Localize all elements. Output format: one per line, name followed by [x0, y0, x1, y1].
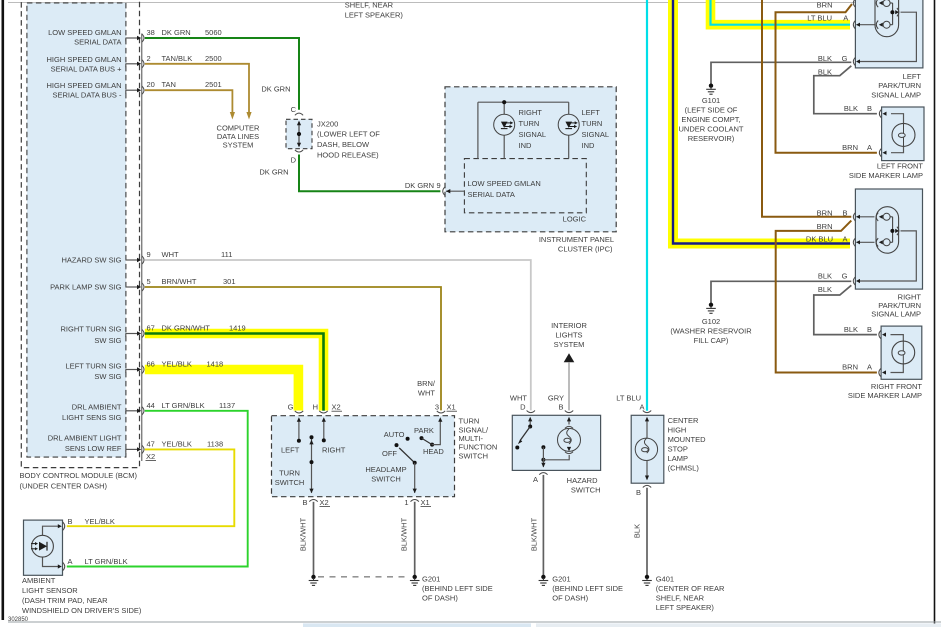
svg-text:TURN: TURN	[459, 417, 480, 426]
svg-text:(LOWER LEFT OF: (LOWER LEFT OF	[317, 130, 380, 139]
svg-text:B: B	[68, 517, 73, 526]
svg-text:X1: X1	[447, 403, 456, 412]
svg-text:BRN/: BRN/	[417, 379, 436, 388]
svg-text:SIGNAL: SIGNAL	[582, 130, 610, 139]
svg-text:PARK/TURN: PARK/TURN	[878, 81, 921, 90]
terminal arcs right marker	[879, 330, 881, 338]
svg-text:IND: IND	[582, 141, 596, 150]
svg-text:HIGH: HIGH	[668, 426, 687, 435]
filament row A right lamp	[857, 241, 875, 243]
svg-text:SWITCH: SWITCH	[459, 451, 489, 460]
svg-text:DK GRN: DK GRN	[162, 28, 191, 37]
terminal arc B bottom	[309, 500, 317, 502]
lamp LEFT PARK/TURN box	[855, 0, 923, 68]
svg-text:9: 9	[147, 250, 151, 259]
svg-text:LIGHT SENS SIG: LIGHT SENS SIG	[62, 413, 122, 422]
wire PARK to HEAD segment	[422, 438, 433, 445]
wire highlight DK BLU to right lamp A	[673, 0, 850, 244]
svg-text:(WASHER RESERVOIR: (WASHER RESERVOIR	[670, 327, 752, 336]
wire dashed ground link	[318, 576, 410, 578]
svg-text:HAZARD: HAZARD	[567, 476, 598, 485]
svg-text:OFF: OFF	[382, 449, 397, 458]
svg-text:RIGHT: RIGHT	[322, 445, 346, 454]
svg-text:TURN: TURN	[582, 119, 603, 128]
svg-text:1: 1	[404, 498, 408, 507]
svg-text:LEFT TURN SIG: LEFT TURN SIG	[66, 362, 122, 371]
svg-text:BLK: BLK	[818, 68, 832, 77]
svg-text:(BEHIND LEFT SIDE: (BEHIND LEFT SIDE	[422, 584, 493, 593]
bottom page border line	[8, 621, 941, 623]
svg-text:INSTRUMENT PANEL: INSTRUMENT PANEL	[539, 235, 614, 244]
svg-text:9: 9	[437, 181, 441, 190]
svg-text:BLK: BLK	[818, 285, 832, 294]
terminal arc H	[319, 411, 327, 413]
junction dot IPC bus	[502, 100, 506, 104]
right page border	[934, 0, 936, 627]
svg-text:B: B	[636, 488, 641, 497]
terminal arcs right lamp	[853, 213, 855, 221]
svg-text:301: 301	[223, 277, 236, 286]
filament row B right lamp	[857, 216, 875, 218]
lamp hazard illumination	[568, 419, 570, 425]
svg-text:SWITCH: SWITCH	[275, 478, 305, 487]
wire IPC internal bus	[478, 102, 569, 158]
svg-text:DK GRN: DK GRN	[259, 168, 288, 177]
svg-text:FILL CAP): FILL CAP)	[694, 336, 729, 345]
bulb stadium right lamp	[876, 207, 899, 254]
svg-text:CLUSTER (IPC): CLUSTER (IPC)	[558, 245, 613, 254]
svg-text:HAZARD SW SIG: HAZARD SW SIG	[61, 256, 121, 265]
BCM body control module outer box	[21, 0, 139, 468]
svg-text:SIGNAL LAMP: SIGNAL LAMP	[871, 310, 921, 319]
svg-text:38: 38	[147, 28, 155, 37]
svg-text:BLK: BLK	[633, 524, 642, 538]
indicator LED right turn signal ind	[494, 114, 515, 135]
terminal arc 1 bottom	[411, 500, 419, 502]
svg-text:47: 47	[147, 439, 155, 448]
svg-text:SIDE MARKER LAMP: SIDE MARKER LAMP	[848, 391, 922, 400]
terminal arc C	[295, 113, 303, 115]
svg-text:B: B	[302, 498, 307, 507]
svg-text:SENS LOW REF: SENS LOW REF	[65, 444, 122, 453]
svg-text:66: 66	[147, 360, 155, 369]
svg-text:BRN/WHT: BRN/WHT	[162, 277, 197, 286]
wire LT GRN/BLK 1137 from BCM 44 to ambient sensor A	[67, 411, 248, 567]
lamp CHMSL box	[631, 415, 664, 483]
svg-text:LEFT SPEAKER): LEFT SPEAKER)	[345, 11, 404, 20]
svg-text:SYSTEM: SYSTEM	[554, 340, 585, 349]
svg-text:2501: 2501	[205, 80, 222, 89]
svg-text:20: 20	[147, 80, 155, 89]
svg-text:G201: G201	[422, 574, 440, 583]
svg-text:LIGHTS: LIGHTS	[555, 330, 582, 339]
svg-text:DK BLU: DK BLU	[806, 234, 833, 243]
filament row B left lamp	[876, 0, 878, 7]
svg-text:LOW SPEED GMLAN: LOW SPEED GMLAN	[48, 28, 121, 37]
svg-text:G: G	[288, 403, 294, 412]
svg-text:SIGNAL/: SIGNAL/	[459, 425, 490, 434]
svg-text:1138: 1138	[207, 439, 223, 448]
svg-text:DK GRN: DK GRN	[261, 85, 290, 94]
wire LT BLU core to left lamp A	[711, 0, 851, 25]
svg-text:LEFT: LEFT	[903, 72, 922, 81]
terminal arc A hazard bottom	[539, 473, 547, 475]
wire BRN left lamp B branch to left marker A	[776, 4, 877, 153]
filament row A left lamp	[857, 24, 875, 26]
svg-text:BLK: BLK	[818, 272, 832, 281]
wire BRN feed to right lamp B	[762, 0, 851, 217]
svg-text:BRN: BRN	[817, 222, 833, 231]
svg-text:SWITCH: SWITCH	[571, 485, 601, 494]
svg-text:JX200: JX200	[317, 119, 338, 128]
svg-text:B: B	[867, 325, 872, 334]
photodiode ambient sensor	[32, 535, 54, 557]
junction dot JX200	[297, 132, 301, 136]
switch headlamp lever	[399, 448, 415, 463]
svg-text:ENGINE COMPT,: ENGINE COMPT,	[681, 115, 740, 124]
ground G201 at dash	[410, 575, 420, 586]
svg-text:D: D	[520, 403, 526, 412]
svg-text:YEL/BLK: YEL/BLK	[85, 517, 115, 526]
indicator LED left turn signal ind	[558, 114, 579, 135]
wire DK GRN/WHT 1419 from BCM 67 to switch H	[145, 334, 324, 411]
switch headlamp contacts AUTO OFF PARK HEAD	[406, 437, 410, 441]
svg-text:SW SIG: SW SIG	[94, 336, 121, 345]
svg-text:3: 3	[435, 403, 439, 412]
svg-text:BLK: BLK	[844, 325, 858, 334]
switch turn signal / multifunction switch box	[272, 416, 455, 497]
wire TAN/BLK 2500 from BCM 2 to computer data lines	[145, 64, 249, 113]
ground G101	[706, 84, 716, 95]
lamp LEFT FRONT SIDE MARKER box	[882, 107, 924, 161]
svg-text:CENTER: CENTER	[668, 416, 699, 425]
ground G401	[642, 575, 652, 586]
svg-text:INTERIOR: INTERIOR	[551, 321, 587, 330]
svg-text:HIGH SPEED GMLAN: HIGH SPEED GMLAN	[46, 81, 121, 90]
wire BLK/WHT from switch B to G201	[313, 502, 315, 575]
terminal arc IPC pin 9	[443, 187, 445, 195]
svg-text:X2: X2	[332, 403, 341, 412]
terminal arc B chmsl bottom	[643, 485, 651, 487]
svg-text:2500: 2500	[205, 54, 222, 63]
wire left lamp internal to pin G	[860, 12, 916, 61]
terminal arc G	[295, 411, 303, 413]
svg-text:FUNCTION: FUNCTION	[459, 443, 498, 452]
svg-text:YEL/BLK: YEL/BLK	[162, 360, 192, 369]
svg-text:B: B	[558, 403, 563, 412]
bulb stadium left lamp	[875, 0, 899, 37]
svg-text:LT GRN/BLK: LT GRN/BLK	[162, 401, 205, 410]
terminal arc B	[565, 411, 573, 413]
svg-text:H: H	[313, 403, 318, 412]
svg-text:UNDER COOLANT: UNDER COOLANT	[678, 125, 743, 134]
svg-text:TAN/BLK: TAN/BLK	[162, 54, 193, 63]
wire BLK G102 to right lamp G	[711, 281, 851, 303]
svg-text:WINDSHIELD ON DRIVER'S SIDE): WINDSHIELD ON DRIVER'S SIDE)	[22, 606, 142, 615]
svg-text:BLK/WHT: BLK/WHT	[299, 517, 308, 551]
svg-text:HOOD RELEASE): HOOD RELEASE)	[317, 151, 379, 160]
svg-text:BRN: BRN	[842, 363, 858, 372]
svg-text:WHT: WHT	[162, 250, 179, 259]
svg-text:MULTI-: MULTI-	[459, 434, 484, 443]
svg-text:G201: G201	[552, 574, 570, 583]
svg-text:HIGH SPEED GMLAN: HIGH SPEED GMLAN	[46, 55, 121, 64]
JX200 internal joint wire	[298, 122, 300, 146]
svg-text:A: A	[639, 403, 644, 412]
svg-text:BODY CONTROL MODULE (BCM): BODY CONTROL MODULE (BCM)	[20, 471, 138, 480]
wire LT BLU to CHMSL A	[646, 0, 648, 411]
svg-text:G101: G101	[702, 96, 720, 105]
svg-text:5060: 5060	[205, 28, 222, 37]
svg-text:44: 44	[147, 401, 155, 410]
wire BLK G101 to left lamp G	[711, 62, 851, 84]
wire GRY from hazard B to interior lights	[568, 362, 570, 410]
svg-text:LAMP: LAMP	[668, 454, 688, 463]
wire DK GRN 5060 from BCM 38 to JX200 C	[145, 38, 299, 110]
svg-text:LOGIC: LOGIC	[563, 214, 587, 223]
terminal arc A chmsl	[643, 411, 651, 413]
IPC logic inner box	[464, 159, 586, 213]
svg-text:OF DASH): OF DASH)	[552, 593, 588, 602]
svg-text:2: 2	[147, 54, 151, 63]
lamp RIGHT PARK/TURN box	[855, 189, 922, 289]
svg-text:WHT: WHT	[510, 393, 527, 402]
BCM pin 38 arrow and terminal arc	[126, 38, 138, 449]
switch turn switch pole	[311, 437, 313, 493]
svg-text:C: C	[291, 105, 297, 114]
svg-text:G401: G401	[656, 574, 674, 583]
wire BRN right lamp B branch to right marker A	[776, 221, 877, 373]
terminal arcs left marker	[879, 110, 881, 118]
svg-text:1137: 1137	[219, 401, 235, 410]
svg-text:A: A	[842, 234, 847, 243]
svg-text:5: 5	[147, 277, 151, 286]
svg-text:DK GRN: DK GRN	[405, 181, 434, 190]
switch hazard common pole	[541, 445, 545, 449]
svg-text:(UNDER CENTER DASH): (UNDER CENTER DASH)	[20, 482, 108, 491]
svg-text:MOUNTED: MOUNTED	[668, 435, 706, 444]
svg-text:SHELF, NEAR: SHELF, NEAR	[656, 593, 705, 602]
wire highlight for DK GRN/WHT 1419	[145, 334, 324, 411]
svg-text:BRN: BRN	[842, 143, 858, 152]
wire top page separator line	[8, 2, 855, 4]
svg-text:X2: X2	[146, 452, 155, 461]
svg-text:LEFT: LEFT	[582, 108, 601, 117]
BCM inner dashed box	[27, 3, 126, 457]
connector JX200 box	[286, 119, 312, 148]
svg-text:SERIAL DATA: SERIAL DATA	[468, 190, 515, 199]
svg-text:(CENTER OF REAR: (CENTER OF REAR	[656, 584, 725, 593]
svg-text:IND: IND	[519, 141, 533, 150]
switch hazard toggle	[529, 419, 531, 427]
marker bulb left	[891, 114, 904, 153]
svg-text:DRL AMBIENT: DRL AMBIENT	[72, 402, 122, 411]
svg-text:PARK LAMP SW SIG: PARK LAMP SW SIG	[50, 283, 122, 292]
terminal arc D	[295, 150, 303, 152]
wire BLK/WHT from switch 1 to G201	[414, 502, 416, 575]
svg-text:PARK: PARK	[414, 426, 434, 435]
svg-text:BLK/WHT: BLK/WHT	[529, 517, 538, 551]
wire DK GRN from JX200 D to IPC pin 9	[299, 155, 440, 192]
switch turn switch right contact	[323, 419, 325, 440]
wire pin 9 to logic box	[446, 190, 464, 192]
svg-text:BLK: BLK	[844, 104, 858, 113]
svg-text:DK GRN/WHT: DK GRN/WHT	[162, 324, 211, 333]
wire right lamp internal to pin G	[860, 231, 916, 281]
svg-text:SW SIG: SW SIG	[94, 372, 121, 381]
wire WHT 111 from BCM 9 to hazard switch D	[145, 260, 531, 410]
svg-text:STOP: STOP	[668, 445, 688, 454]
svg-text:1418: 1418	[207, 360, 224, 369]
switch turn switch left contact	[298, 419, 300, 441]
svg-text:AMBIENT: AMBIENT	[22, 576, 56, 585]
ground G201 behind dash second	[539, 575, 549, 586]
svg-text:BLK/WHT: BLK/WHT	[400, 517, 409, 551]
svg-text:YEL/BLK: YEL/BLK	[162, 439, 192, 448]
svg-text:BLK: BLK	[818, 54, 832, 63]
svg-text:A: A	[68, 557, 73, 566]
svg-text:B: B	[867, 104, 872, 113]
ground symbol at switch B	[309, 575, 319, 586]
svg-text:LEFT: LEFT	[281, 445, 300, 454]
IPC instrument panel cluster box	[445, 87, 616, 232]
wire YEL/BLK 1418 highlighted from BCM 66 to switch G	[145, 370, 299, 411]
svg-text:LOW SPEED GMLAN: LOW SPEED GMLAN	[468, 179, 541, 188]
svg-text:LT BLU: LT BLU	[807, 14, 832, 23]
svg-text:RIGHT FRONT: RIGHT FRONT	[871, 382, 923, 391]
svg-text:GRY: GRY	[548, 393, 564, 402]
sensor ambient light sensor box	[24, 520, 63, 575]
wire YEL/BLK 1138 from BCM 47 to ambient sensor B	[67, 449, 235, 526]
lamp RIGHT FRONT SIDE MARKER box	[881, 326, 922, 379]
switch hazard switch box	[512, 415, 600, 470]
common filament link right lamp	[892, 217, 894, 243]
svg-text:DRL AMBIENT LIGHT: DRL AMBIENT LIGHT	[48, 434, 122, 443]
svg-text:RESERVOIR): RESERVOIR)	[688, 134, 735, 143]
svg-text:BRN: BRN	[817, 208, 833, 217]
svg-text:G: G	[842, 54, 848, 63]
svg-text:RIGHT: RIGHT	[519, 108, 543, 117]
switch headlamp pole to pin 1	[414, 463, 416, 493]
svg-text:G102: G102	[702, 317, 720, 326]
wire highlight LT BLU to left lamp A	[711, 0, 851, 25]
svg-text:(LEFT SIDE OF: (LEFT SIDE OF	[685, 106, 738, 115]
svg-text:DASH, BELOW: DASH, BELOW	[317, 140, 370, 149]
svg-text:G: G	[842, 272, 848, 281]
left page border	[2, 0, 5, 620]
svg-text:WHT: WHT	[418, 389, 435, 398]
svg-text:SIDE MARKER LAMP: SIDE MARKER LAMP	[849, 171, 923, 180]
wire hazard lamp branch	[543, 455, 569, 460]
svg-text:LEFT SPEAKER): LEFT SPEAKER)	[656, 603, 715, 612]
BCM connector bracket line X2	[141, 34, 143, 462]
bottom next-section strip	[303, 623, 531, 627]
wire BLK right lamp G to right marker B	[814, 285, 877, 334]
marker bulb right	[891, 335, 904, 373]
wire BLK left lamp G to left marker B	[814, 66, 877, 114]
svg-text:A: A	[533, 475, 538, 484]
wire BLK/WHT from hazard A to G201	[542, 475, 544, 575]
svg-text:LIGHT SENSOR: LIGHT SENSOR	[22, 586, 78, 595]
svg-text:SIGNAL LAMP: SIGNAL LAMP	[871, 90, 921, 99]
svg-text:A: A	[867, 363, 872, 372]
common filament link left lamp	[892, 3, 894, 25]
svg-text:X2: X2	[320, 498, 329, 507]
svg-text:302850: 302850	[8, 617, 29, 623]
svg-text:SERIAL DATA: SERIAL DATA	[74, 38, 121, 47]
svg-text:HEADLAMP: HEADLAMP	[365, 465, 406, 474]
svg-text:(DASH TRIM PAD, NEAR: (DASH TRIM PAD, NEAR	[22, 596, 108, 605]
svg-text:X1: X1	[421, 498, 430, 507]
svg-text:1419: 1419	[229, 324, 246, 333]
svg-text:TURN: TURN	[279, 469, 300, 478]
svg-text:AUTO: AUTO	[384, 430, 405, 439]
svg-text:(BEHIND LEFT SIDE: (BEHIND LEFT SIDE	[552, 584, 623, 593]
terminal arcs ambient sensor	[63, 522, 65, 530]
svg-text:TURN: TURN	[519, 119, 540, 128]
svg-text:BRN: BRN	[817, 1, 833, 10]
svg-text:LT GRN/BLK: LT GRN/BLK	[85, 557, 128, 566]
svg-text:A: A	[843, 14, 848, 23]
wire TAN 2501 from BCM 20 to computer data lines	[145, 90, 233, 113]
svg-text:SERIAL DATA BUS -: SERIAL DATA BUS -	[52, 91, 122, 100]
ground G102	[706, 303, 716, 314]
svg-text:OF DASH): OF DASH)	[422, 593, 458, 602]
lamp CHMSL bulb	[646, 419, 648, 439]
svg-text:B: B	[842, 208, 847, 217]
svg-text:HEAD: HEAD	[423, 447, 444, 456]
ambient sensor internal wires	[43, 526, 60, 566]
wire BRN/WHT 301 from BCM 5 to multifunction switch 3	[145, 287, 441, 410]
svg-text:D: D	[291, 156, 297, 165]
svg-text:67: 67	[147, 324, 155, 333]
wire DK BLU core to right lamp A	[673, 0, 850, 244]
svg-text:SHELF, NEAR: SHELF, NEAR	[345, 1, 394, 10]
svg-text:SERIAL DATA BUS +: SERIAL DATA BUS +	[51, 64, 123, 73]
svg-text:RIGHT TURN SIG: RIGHT TURN SIG	[61, 325, 122, 334]
svg-text:SWITCH: SWITCH	[371, 475, 401, 484]
svg-text:(CHMSL): (CHMSL)	[668, 464, 700, 473]
terminal arc 3	[437, 411, 445, 413]
svg-text:TAN: TAN	[162, 80, 176, 89]
svg-text:A: A	[867, 143, 872, 152]
terminal arc D	[527, 411, 535, 413]
terminal arcs left lamp	[853, 0, 855, 7]
wire HEAD to pin 3	[432, 419, 440, 445]
svg-text:SYSTEM: SYSTEM	[223, 140, 254, 149]
svg-text:SIGNAL: SIGNAL	[519, 130, 547, 139]
svg-text:LT BLU: LT BLU	[616, 393, 641, 402]
svg-text:LEFT FRONT: LEFT FRONT	[877, 162, 924, 171]
wire BLK from chmsl B to G401	[646, 488, 648, 576]
svg-text:111: 111	[221, 250, 232, 259]
